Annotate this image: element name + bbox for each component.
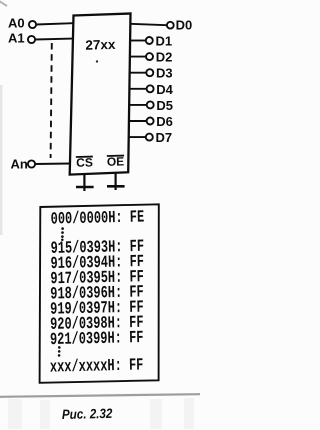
- scan streaks bottom strip: [8, 398, 194, 429]
- terminal A0: [29, 21, 36, 28]
- wire A1: [35, 38, 72, 41]
- wire An: [35, 163, 70, 166]
- terminal D1: [146, 37, 153, 44]
- pin label CS (overline): [76, 155, 93, 169]
- svg-text:A0: A0: [8, 16, 25, 31]
- svg-text:D1: D1: [156, 34, 173, 49]
- separator grey line: [0, 394, 200, 397]
- svg-text:Рис. 2.32: Рис. 2.32: [62, 406, 113, 422]
- svg-text:921/0399H: FF: 921/0399H: FF: [50, 329, 144, 350]
- wire A0: [36, 23, 73, 24]
- terminal A1: [28, 36, 35, 43]
- svg-text:D2: D2: [156, 50, 173, 65]
- terminal D4: [147, 85, 154, 92]
- svg-text:xxx/xxxxH: FF: xxx/xxxxH: FF: [50, 356, 144, 377]
- terminal An: [28, 160, 35, 167]
- wire D6: [129, 120, 147, 122]
- svg-text:D4: D4: [156, 82, 173, 97]
- wire D5: [129, 104, 146, 106]
- terminal D0: [167, 22, 174, 29]
- svg-text:27xx: 27xx: [85, 37, 116, 53]
- speck inside chip: [96, 60, 98, 62]
- terminal D5: [147, 101, 154, 108]
- ground at CS pin: [76, 174, 94, 191]
- wire D7: [129, 136, 146, 138]
- svg-text:D5: D5: [156, 98, 173, 113]
- svg-text:D0: D0: [176, 18, 193, 33]
- pin label OE (overline): [107, 154, 125, 168]
- svg-text:D3: D3: [156, 66, 173, 81]
- dashed line A1..An: [51, 43, 52, 158]
- svg-text:A1: A1: [8, 31, 25, 46]
- EPROM U1 body: [70, 14, 131, 175]
- wire D1: [130, 40, 146, 42]
- wire D0: [130, 24, 167, 25]
- svg-text:An: An: [11, 157, 28, 172]
- svg-text:D7: D7: [156, 130, 173, 145]
- terminal D2: [146, 53, 153, 60]
- svg-text:000/0000H: FE: 000/0000H: FE: [51, 208, 145, 229]
- ellipsis dots lower: [58, 346, 61, 357]
- wire D2: [130, 56, 146, 58]
- scan smudge left edge: [0, 85, 2, 235]
- ellipsis dots upper: [61, 227, 64, 241]
- terminal D3: [146, 69, 153, 76]
- ground at OE pin: [107, 173, 125, 190]
- wire D3: [130, 72, 147, 74]
- terminal D7: [146, 134, 153, 141]
- wire D4: [130, 88, 147, 90]
- memory map table box: [40, 204, 159, 382]
- terminal D6: [147, 118, 154, 125]
- svg-text:D6: D6: [156, 114, 173, 129]
- scan artifact top-left corner: [0, 1, 7, 6]
